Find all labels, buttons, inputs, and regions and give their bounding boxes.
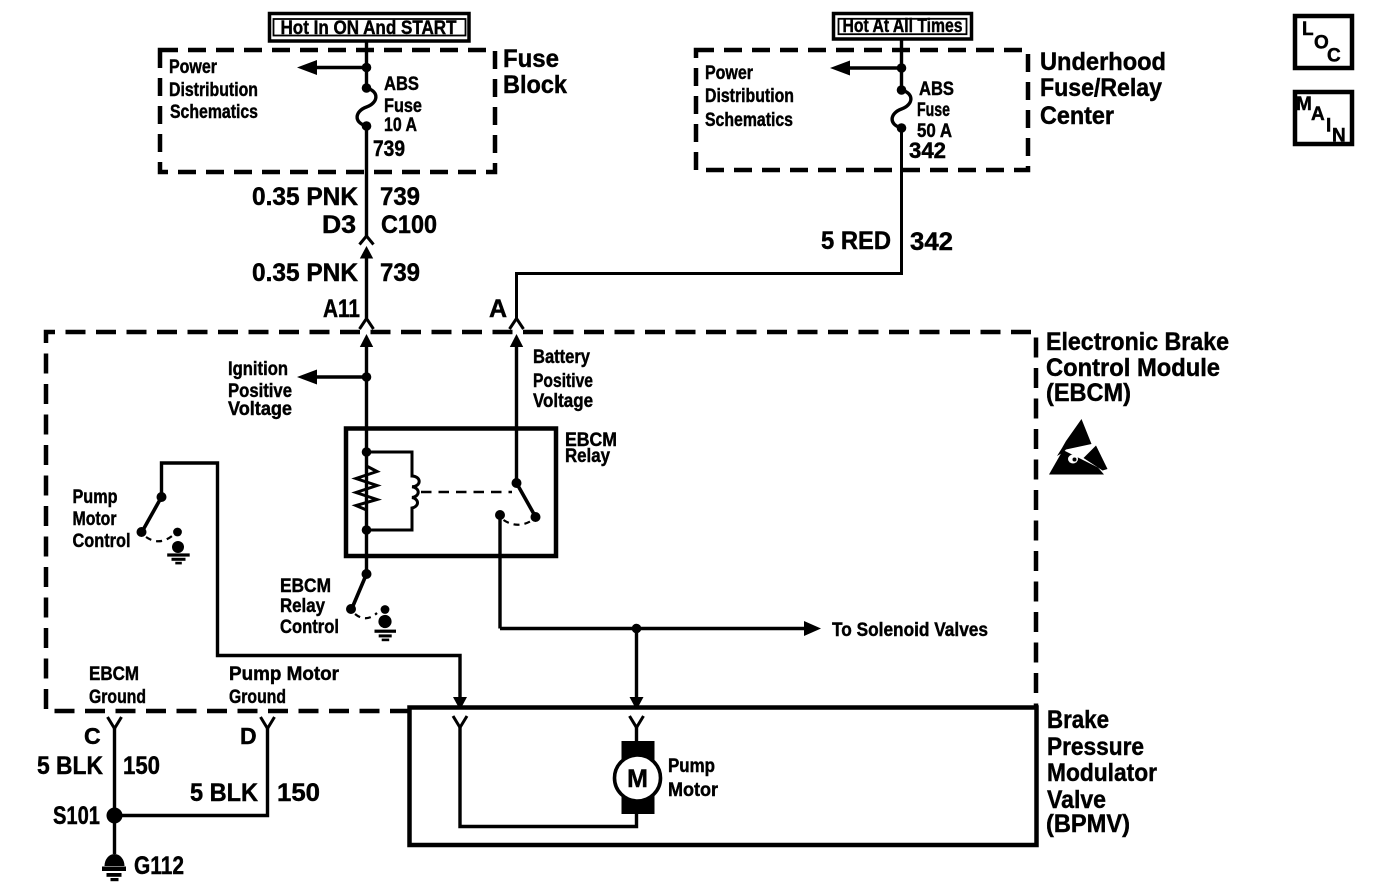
svg-text:Hot At All Times: Hot At All Times	[843, 16, 963, 37]
ground symbol (EBCM relay control)	[375, 605, 397, 641]
wire: relay contact down to pump motor feed	[498, 515, 501, 629]
wire label: 5 BLK 150 (D)	[190, 779, 320, 807]
svg-text:Motor: Motor	[668, 780, 719, 801]
fuse ABS Fuse 50 A (S-curve symbol)	[892, 85, 911, 133]
svg-text:Fuse/Relay: Fuse/Relay	[1040, 74, 1162, 102]
svg-text:Fuse: Fuse	[384, 96, 422, 117]
svg-text:Battery: Battery	[533, 347, 590, 368]
wire: ignition feed vertical from Hot In ON And START	[365, 41, 368, 88]
label: EBCM Relay	[565, 430, 617, 467]
connector C at EBCM bottom edge	[108, 717, 122, 729]
svg-text:C: C	[84, 723, 101, 749]
svg-text:(BPMV): (BPMV)	[1046, 810, 1130, 838]
pin label: D3 / C100 connector	[322, 211, 437, 239]
svg-text:Schematics: Schematics	[170, 102, 258, 123]
svg-text:739: 739	[380, 259, 420, 287]
connector C100 (chevron + arrow)	[360, 236, 374, 318]
wire: arrow to power distribution schematics (right)	[830, 61, 902, 76]
wire: pump motor feed down into BPMV (arrow)	[630, 629, 644, 711]
ground symbol (pump motor control)	[167, 528, 190, 565]
svg-text:Underhood: Underhood	[1040, 48, 1166, 76]
svg-text:Control: Control	[280, 617, 339, 638]
svg-text:0.35 PNK: 0.35 PNK	[252, 183, 358, 211]
junction node at power distribution tap	[362, 63, 372, 73]
connector A at EBCM top edge (chevron above, arrow below)	[510, 319, 524, 484]
svg-text:Fuse: Fuse	[917, 100, 950, 121]
dashed box: underhood fuse/relay center	[696, 50, 1028, 170]
text: Pump Motor Control	[73, 487, 131, 552]
svg-text:Voltage: Voltage	[228, 399, 292, 420]
text: Power Distribution Schematics (fuse block)	[169, 57, 258, 123]
svg-text:Ground: Ground	[89, 687, 146, 708]
svg-text:D: D	[240, 723, 257, 749]
label box: Hot In ON And START	[270, 14, 470, 42]
svg-text:M: M	[627, 765, 648, 793]
svg-text:Relay: Relay	[565, 446, 610, 467]
svg-text:A11: A11	[323, 295, 360, 323]
motor M1: pump motor (brush blocks + circle + M)	[615, 741, 661, 814]
svg-text:0.35 PNK: 0.35 PNK	[252, 259, 358, 287]
junction node at ignition tap	[362, 372, 372, 382]
text: Pump Motor	[668, 756, 719, 801]
relay switch (pivot, arm, contact)	[495, 478, 541, 525]
svg-text:Pump Motor: Pump Motor	[229, 664, 340, 685]
wire: 739 pink wire below fuse	[365, 126, 368, 236]
svg-text:Fuse: Fuse	[503, 45, 559, 73]
wire: EBCM ground 5 BLK 150 down to S101	[113, 726, 116, 816]
svg-text:Voltage: Voltage	[533, 391, 593, 412]
wire label: 0.35 PNK 739 (above A11)	[252, 259, 420, 287]
svg-text:Pressure: Pressure	[1047, 733, 1144, 761]
svg-text:Ground: Ground	[229, 687, 286, 708]
text: Power Distribution Schematics (underhood)	[705, 63, 794, 131]
label: Fuse Block	[503, 45, 567, 99]
legend box: LOC	[1295, 16, 1352, 68]
svg-text:I: I	[1326, 116, 1331, 137]
connector at BPMV pin (pump motor feed)	[630, 716, 644, 728]
wire: horizontal to solenoid valves	[500, 627, 806, 630]
wire: 342 red wire below fuse down and left to EBCM pin A	[517, 128, 902, 318]
svg-text:C100: C100	[381, 211, 437, 239]
svg-text:Electronic Brake: Electronic Brake	[1046, 328, 1229, 356]
ESD sensitivity symbol	[1049, 419, 1108, 475]
label: Brake Pressure Modulator Valve (BPMV)	[1046, 706, 1157, 838]
resistor (relay suppression) zigzag	[356, 452, 377, 530]
svg-text:Schematics: Schematics	[705, 110, 793, 131]
wire: arrow to ignition positive voltage	[297, 370, 367, 385]
svg-text:D3: D3	[322, 211, 356, 239]
connector D at EBCM bottom edge	[261, 717, 275, 729]
arrow: to solenoid valves	[804, 621, 821, 636]
svg-text:5 RED: 5 RED	[821, 227, 891, 255]
wire: connector down to motor top	[635, 725, 638, 745]
connector at BPMV pin (pump motor control feed)	[453, 716, 467, 728]
svg-text:739: 739	[373, 136, 405, 161]
svg-text:G112: G112	[134, 852, 184, 880]
wire label: 0.35 PNK 739 (above C100)	[252, 183, 420, 211]
relay box: EBCM relay	[346, 429, 556, 557]
svg-text:ABS: ABS	[919, 79, 954, 100]
svg-text:Relay: Relay	[280, 596, 325, 617]
label: Underhood Fuse/Relay Center	[1040, 48, 1166, 130]
svg-text:Power: Power	[705, 63, 753, 84]
node: relay coil top	[362, 447, 372, 457]
value label: ABS Fuse 50 A	[917, 79, 954, 142]
wire: pump motor ground down to splice	[115, 726, 268, 816]
svg-text:(EBCM): (EBCM)	[1046, 379, 1131, 407]
svg-text:Motor: Motor	[73, 509, 118, 530]
svg-text:150: 150	[277, 779, 320, 807]
wire: arrow to power distribution schematics (left)	[297, 60, 367, 75]
svg-text:Control: Control	[73, 531, 131, 552]
svg-text:Positive: Positive	[533, 371, 593, 392]
wire: inside BPMV from connector down and right to motor	[460, 725, 637, 827]
svg-text:Center: Center	[1040, 102, 1114, 130]
wire label: 5 RED 342	[821, 227, 953, 256]
value label: ABS Fuse 10 A	[384, 74, 422, 136]
svg-text:Brake: Brake	[1047, 706, 1109, 734]
wire: S101 to ground G112	[113, 816, 116, 855]
junction node at power distribution tap (right)	[897, 63, 907, 73]
svg-text:C: C	[1327, 46, 1341, 67]
svg-text:A: A	[489, 295, 507, 323]
svg-text:342: 342	[910, 228, 953, 256]
wire: battery feed vertical from Hot At All Times	[900, 39, 903, 90]
svg-text:Distribution: Distribution	[705, 86, 794, 107]
svg-text:Block: Block	[503, 71, 567, 99]
box: Brake Pressure Modulator Valve (BPMV)	[410, 708, 1037, 846]
node: relay coil bottom	[362, 525, 372, 535]
svg-text:150: 150	[123, 752, 160, 780]
svg-text:10 A: 10 A	[384, 115, 417, 136]
svg-text:ABS: ABS	[384, 74, 419, 95]
svg-text:EBCM: EBCM	[280, 576, 331, 597]
text: Battery Positive Voltage	[533, 347, 593, 412]
text: EBCM Ground	[89, 664, 146, 708]
text: EBCM Relay Control	[280, 576, 339, 638]
dashed box: Electronic Brake Control Module (EBCM)	[46, 332, 1036, 711]
svg-text:Pump: Pump	[73, 487, 118, 508]
label: Electronic Brake Control Module (EBCM)	[1046, 328, 1229, 407]
svg-text:N: N	[1332, 126, 1346, 147]
svg-text:342: 342	[909, 138, 946, 163]
pump motor control switch	[137, 492, 173, 541]
svg-text:S101: S101	[53, 802, 100, 830]
wire label: 5 BLK 150 (C)	[37, 752, 160, 780]
ground G112 symbol	[102, 854, 126, 881]
svg-text:5 BLK: 5 BLK	[37, 752, 103, 780]
fuse ABS Fuse 10 A (S-curve symbol)	[357, 83, 376, 131]
svg-text:A: A	[1311, 104, 1325, 125]
svg-text:739: 739	[380, 183, 420, 211]
svg-text:5 BLK: 5 BLK	[190, 779, 258, 807]
dashed actuation link	[421, 491, 512, 494]
relay coil winding	[367, 452, 420, 530]
svg-text:Ignition: Ignition	[228, 359, 288, 380]
splice S101	[107, 808, 123, 824]
text: Ignition Positive Voltage	[228, 359, 292, 420]
EBCM relay control switch	[346, 569, 377, 618]
dashed box: fuse block	[160, 50, 495, 172]
text: Pump Motor Ground	[229, 664, 340, 708]
wire: pump motor control to BPMV (up, over, down, right, arrow down)	[162, 463, 468, 710]
svg-text:M: M	[1296, 94, 1312, 115]
svg-text:Hot In ON And START: Hot In ON And START	[281, 18, 457, 39]
connector A11 at EBCM top edge (chevron above, arrow below)	[360, 319, 374, 575]
svg-text:To Solenoid Valves: To Solenoid Valves	[832, 620, 988, 641]
junction node at pump motor branch	[632, 624, 642, 634]
legend box: MAIN	[1295, 92, 1352, 147]
svg-text:EBCM: EBCM	[89, 664, 139, 685]
svg-text:Power: Power	[169, 57, 217, 78]
svg-text:L: L	[1302, 19, 1314, 40]
svg-text:Pump: Pump	[668, 756, 715, 777]
svg-text:Control Module: Control Module	[1046, 354, 1220, 382]
svg-text:Modulator: Modulator	[1047, 759, 1157, 787]
svg-text:Distribution: Distribution	[169, 80, 258, 101]
label box: Hot At All Times	[834, 14, 972, 40]
